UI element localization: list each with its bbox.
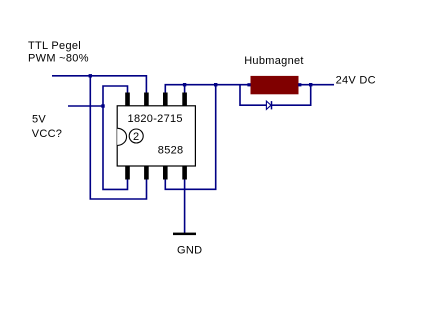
pin 1 — [125, 93, 130, 107]
wire flyback diode branch right — [272, 85, 311, 106]
svg-text:TTL Pegel: TTL Pegel — [28, 40, 81, 52]
node 5V VCC label — [32, 114, 63, 140]
diode D1 — [266, 101, 271, 109]
IC U1 body — [117, 106, 195, 166]
svg-text:Hubmagnet: Hubmagnet — [244, 55, 304, 67]
svg-text:2: 2 — [133, 131, 139, 143]
junction at 5V — [101, 104, 104, 107]
junction at diode return — [309, 83, 312, 86]
pin 4 — [182, 93, 187, 107]
pin 3 — [163, 93, 168, 107]
svg-text:PWM ~80%: PWM ~80% — [28, 53, 89, 65]
wire output net pin 3 to 24V — [165, 85, 334, 93]
wire 5V input — [68, 105, 103, 107]
IC pin-1 circle marker 2 — [129, 129, 143, 143]
junction above pin 4 — [183, 83, 186, 86]
wire PWM branch to pin 6 — [90, 76, 146, 199]
pin 2 — [144, 93, 149, 107]
svg-text:24V DC: 24V DC — [336, 74, 376, 86]
solenoid Hubmagnet coil — [251, 76, 299, 94]
wire flyback diode branch left — [240, 85, 266, 106]
wire PWM input to pin 2 — [52, 76, 146, 93]
svg-text:1820-2715: 1820-2715 — [128, 113, 183, 125]
wire pin 4 stub — [184, 85, 186, 93]
svg-text:GND: GND — [177, 245, 202, 257]
svg-text:5V: 5V — [32, 114, 46, 126]
pin 8 — [182, 166, 187, 180]
IC notch — [117, 128, 126, 145]
wire VCC to pin 1 and pin 5 — [103, 86, 128, 189]
svg-text:VCC?: VCC? — [32, 128, 63, 140]
wire pin 8 to ground — [184, 180, 186, 234]
wire output branch to pin 7 — [165, 85, 215, 190]
pin 6 — [144, 166, 149, 180]
pin 5 — [125, 166, 130, 180]
solenoid right terminal — [298, 83, 301, 86]
pin 7 — [163, 166, 168, 180]
solenoid left terminal — [247, 83, 250, 86]
junction at PWM split — [89, 74, 92, 77]
node TTL Pegel / PWM label — [28, 40, 89, 65]
svg-text:8528: 8528 — [158, 144, 184, 156]
ground — [173, 233, 196, 236]
junction at output split — [214, 83, 217, 86]
